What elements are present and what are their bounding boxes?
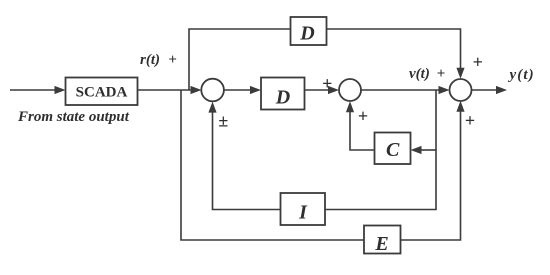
wire C branch (411, 146, 437, 154)
svg-text:+: + (358, 106, 368, 126)
block C (375, 133, 411, 165)
block E (364, 226, 401, 254)
svg-text:r(t) +: r(t) + (140, 52, 177, 68)
svg-text:±: ± (218, 111, 228, 131)
wire junction2 to junction3 (361, 86, 450, 94)
summing junction 1 (201, 79, 224, 102)
wire E-loop left vertical (181, 90, 364, 240)
svg-text:I: I (298, 202, 308, 224)
wire junction1 to D (224, 86, 261, 94)
block SCADA (66, 78, 138, 106)
wire I-loop from junction on main line (325, 90, 436, 210)
svg-text:D: D (299, 23, 314, 45)
svg-text:C: C (386, 139, 400, 161)
svg-text:SCADA: SCADA (76, 85, 128, 101)
svg-text:+: + (465, 111, 475, 131)
wire output arrow (472, 86, 508, 94)
wire input arrow (10, 86, 66, 94)
block D top (291, 17, 327, 45)
svg-text:+: + (473, 52, 483, 72)
wire E to summing junction 3 (bottom right) (401, 101, 465, 240)
wire top loop left vertical (189, 29, 291, 90)
svg-text:+: + (322, 74, 332, 94)
summing junction 3 (450, 79, 472, 101)
summing junction 2 (339, 79, 361, 101)
svg-text:E: E (374, 233, 388, 255)
wire top D to summing junction 3 (top) (327, 29, 465, 79)
wire D to summing junction 2 (305, 86, 340, 94)
wire I to summing junction 1 (bottom) (208, 102, 280, 210)
svg-text:From state output: From state output (17, 109, 130, 125)
block I (281, 193, 326, 225)
svg-text:y(t): y(t) (508, 67, 535, 83)
block D middle (261, 78, 305, 110)
wire SCADA to summing junction 1 (138, 86, 202, 94)
svg-text:v(t) +: v(t) + (409, 66, 445, 82)
wire C to summing junction 2 (bottom) (346, 101, 375, 150)
svg-text:D: D (275, 87, 290, 109)
